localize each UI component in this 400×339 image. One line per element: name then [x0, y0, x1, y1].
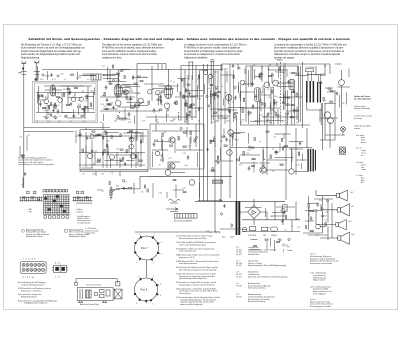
svg-text:4,7k: 4,7k [260, 95, 263, 97]
resistor R36 [296, 93, 297, 96]
svg-text:1,2: 1,2 [64, 79, 66, 81]
resistor R54 [120, 160, 123, 161]
IF transformer can Fi2 [164, 85, 172, 98]
wire: speaker feeds [316, 190, 338, 238]
svg-text:setzen und 2 Umdrehungen legen: setzen und 2 Umdrehungen legen [179, 243, 206, 246]
resistor R12 [108, 104, 111, 105]
preamp interior columns [82, 131, 142, 176]
capacitor C75 [86, 136, 88, 140]
svg-text:← ···· AM: ← ···· AM [24, 208, 32, 211]
variable capacitor C5 tuning [43, 115, 58, 119]
wire: module internals [79, 146, 145, 166]
resistor R42 [252, 159, 255, 160]
svg-text:Ly57: Ly57 [350, 192, 354, 194]
svg-text:0,45: 0,45 [262, 166, 265, 168]
resistor R3 [55, 105, 56, 108]
mains/output transformer Tr1 windings [307, 81, 321, 103]
wire: mid rail [140, 175, 232, 177]
svg-text:560: 560 [173, 119, 176, 121]
svg-text:100m: 100m [268, 122, 273, 124]
tuning indicator lamp La1 [324, 112, 330, 118]
svg-text:St-Dec: St-Dec [277, 59, 283, 62]
svg-text:3: 3 [160, 284, 161, 286]
capacitor C34 [232, 64, 234, 68]
component cluster: lower band left detail [76, 131, 143, 144]
labels below [80, 303, 99, 306]
svg-text:5,6n: 5,6n [101, 191, 104, 193]
svg-text:de procéder au réalignement, c: de procéder au réalignement, consulter l… [184, 53, 241, 56]
svg-text:0,45: 0,45 [47, 121, 50, 123]
svg-text:Le réglage du trimmer et des c: Le réglage du trimmer et des condensateu… [184, 43, 247, 46]
svg-text:Klangschalter eingeschaltet: Klangschalter eingeschaltet [310, 262, 332, 265]
switch wafer labels right [74, 209, 83, 214]
component cluster: extra band E [255, 72, 299, 120]
wire: dial cord line [135, 231, 220, 233]
transistor T29 [156, 91, 160, 95]
transistor T27 [123, 90, 128, 95]
capacitor C3 [69, 90, 72, 95]
svg-text:220: 220 [248, 115, 251, 117]
right top corner links [310, 64, 335, 92]
svg-text:stecker ziehen: stecker ziehen [179, 292, 191, 295]
wire: transformer connections [307, 64, 325, 140]
transistor T7 [138, 98, 143, 103]
capacitor C63 [321, 206, 324, 211]
svg-text:0,25: 0,25 [64, 117, 67, 119]
tone network [303, 196, 332, 240]
svg-text:1,5k: 1,5k [228, 141, 231, 143]
component cluster: extra mid [211, 132, 304, 170]
component cluster: extra band A [38, 88, 95, 119]
svg-text:1,2: 1,2 [267, 89, 269, 91]
svg-text:3,3k: 3,3k [271, 87, 274, 89]
capacitor C53 [121, 187, 126, 190]
resistor R21 [162, 133, 163, 136]
resistor R45 [299, 152, 300, 155]
pointer arrow [198, 199, 222, 202]
svg-text:6,8n: 6,8n [156, 122, 159, 124]
wire: AF module internals [152, 124, 204, 158]
component cluster: mid band detail [206, 129, 302, 173]
wire: decoder dashed boundary [280, 62, 282, 125]
svg-text:5: 5 [153, 303, 154, 305]
transistor T12 [227, 150, 233, 156]
choke Dr3 [316, 224, 321, 229]
transistor T11 [228, 130, 234, 136]
svg-text:2,2k: 2,2k [209, 232, 212, 234]
pilot circle [281, 209, 285, 213]
svg-text:Anschlußleiste AM/FM: Anschlußleiste AM/FM [174, 220, 192, 223]
svg-text:0,45: 0,45 [213, 137, 216, 139]
wire: IF strip verticals [110, 70, 196, 141]
svg-text:tastiera: tastiera [354, 127, 361, 130]
component cluster: top right infill [245, 66, 308, 80]
resistor R23 [162, 158, 163, 161]
svg-text:ance and the calibration would: ance and the calibration would be impair… [102, 50, 157, 53]
fuse Si1 [242, 227, 246, 231]
component cluster: AM tuner detail parts [38, 86, 95, 119]
svg-text:220: 220 [156, 120, 159, 122]
title line [29, 37, 351, 41]
svg-text:0,25: 0,25 [206, 231, 209, 233]
svg-text:LF 108: LF 108 [236, 285, 242, 287]
svg-text:6 7 8 9 10: 6 7 8 9 10 [23, 277, 35, 279]
hatched block [85, 290, 91, 298]
resistor R44 [280, 164, 283, 165]
resistor R13 [126, 96, 127, 99]
svg-text:2: 2 [154, 234, 155, 236]
svg-text:0,25: 0,25 [40, 79, 43, 81]
capacitor C21 [153, 142, 156, 147]
svg-text:0,6: 0,6 [324, 66, 326, 68]
legend entry: circle symbol explanation [22, 228, 50, 238]
svg-text:The alignment of the trimmer c: The alignment of the trimmer capacitors … [102, 43, 162, 46]
svg-text:8,2k: 8,2k [258, 75, 261, 77]
resistor R75 [102, 136, 103, 139]
IF transformer can Fi1 [114, 84, 122, 97]
rectifier module rect [283, 205, 288, 211]
resistor R2 [43, 108, 46, 109]
colour code list [356, 135, 367, 184]
svg-text:6: 6 [136, 303, 137, 305]
resistor R5 [67, 105, 70, 106]
svg-text:Reparaturen zu beachten: Reparaturen zu beachten [21, 289, 41, 292]
svg-text:12k: 12k [232, 102, 235, 104]
svg-text:12k: 12k [102, 75, 105, 77]
svg-text:Endstufe links: Endstufe links [248, 253, 259, 256]
note column small [85, 227, 99, 234]
svg-text:L 71: L 71 [82, 174, 85, 176]
resistor R18 [183, 95, 184, 98]
svg-text:voller Lautstärke gem.: voller Lautstärke gem. [179, 250, 197, 253]
resistor R72 [187, 103, 188, 106]
resistor R64 [314, 210, 317, 211]
svg-text:la reproduction et l'étalonnag: la reproduction et l'étalonnage seraient… [184, 50, 243, 53]
transistor T10 [155, 151, 159, 155]
svg-text:Bereichsumschaltung: Bereichsumschaltung [248, 300, 265, 303]
transistor T3 [71, 97, 75, 101]
transistor T14 [264, 82, 270, 88]
svg-text:Wellenbereich Werte: Wellenbereich Werte [26, 235, 43, 238]
capacitor C11 [105, 85, 108, 90]
svg-text:→ ···· FM: → ···· FM [24, 212, 32, 214]
svg-text:1,5k: 1,5k [270, 216, 273, 218]
terminal left [75, 283, 78, 286]
component cluster: FM detector detail [248, 68, 299, 125]
resistor R77 [102, 152, 103, 155]
wire: driver links [150, 162, 185, 176]
resistor R22 [178, 137, 179, 140]
wire: volume feed [111, 176, 140, 194]
resistor R78 [140, 140, 141, 143]
svg-text:8,2k: 8,2k [116, 186, 119, 188]
svg-text:Abgleichanleitung.: Abgleichanleitung. [21, 57, 40, 60]
stands [79, 301, 107, 303]
ratio detector can Fi4 [289, 79, 295, 89]
svg-text:4,7k: 4,7k [101, 174, 104, 176]
svg-text:6,8n: 6,8n [185, 165, 188, 167]
transistor T23 [137, 60, 299, 120]
svg-text:Tr 8: Tr 8 [110, 172, 113, 174]
svg-text:2,2k: 2,2k [116, 149, 119, 151]
svg-text:Umschaltung von nachstehend an: Umschaltung von nachstehend angegeben. [18, 163, 55, 166]
resistor R53 [104, 150, 105, 153]
AFC transistor T16 [339, 80, 345, 86]
svg-text:LF 103: LF 103 [236, 254, 242, 256]
wire: FM horizontals [240, 92, 310, 125]
transistor T8 [169, 137, 175, 143]
svg-text:2,2k: 2,2k [268, 97, 271, 99]
PCB outline [77, 288, 113, 301]
svg-text:auf Buchsenbelegung achten: auf Buchsenbelegung achten [21, 283, 44, 286]
svg-text:und Abgleichseite vergleichen: und Abgleichseite vergleichen [24, 302, 48, 305]
capacitor C22 [187, 155, 190, 160]
resistor R6 [78, 106, 81, 107]
svg-text:2000µF: 2000µF [271, 235, 277, 237]
component cluster: extra band B [102, 75, 140, 119]
resistor R7 [86, 96, 87, 99]
resistor R33 [264, 103, 265, 106]
resistor R65 [325, 223, 326, 227]
lower-left parts row [79, 131, 107, 139]
svg-text:3,3k: 3,3k [215, 161, 218, 163]
svg-text:10n: 10n [20, 137, 23, 139]
wire: AM box internal bus [36, 86, 95, 113]
svg-text:12k: 12k [90, 76, 93, 78]
wire bundle: center vertical comb [211, 66, 300, 125]
capacitor C41 [248, 166, 251, 171]
right bottom legend block [310, 254, 339, 308]
svg-text:Buchsengruppen schaltbar: Buchsengruppen schaltbar [310, 305, 332, 308]
svg-text:1,5k: 1,5k [225, 69, 228, 71]
svg-text:3,3k: 3,3k [290, 73, 293, 75]
intro paragraph column 1 (German) [21, 43, 85, 59]
dial lamp La3 [341, 127, 346, 136]
resistor R58 [105, 131, 106, 134]
resistor R27 [218, 156, 219, 159]
svg-text:250: 250 [263, 235, 266, 237]
resistor R57 [98, 134, 101, 135]
svg-text:4,7k: 4,7k [141, 192, 144, 194]
svg-text:0,6: 0,6 [260, 92, 262, 94]
svg-text:0,6: 0,6 [285, 230, 287, 232]
svg-text:C 14: C 14 [82, 121, 86, 123]
resistor R29 [211, 170, 214, 171]
wire: pos7 to pos5 link [145, 260, 147, 278]
svg-text:Fi 6 460kHz: Fi 6 460kHz [306, 67, 315, 69]
component cluster: right top detail [319, 66, 350, 123]
wire: AM box verticals [39, 86, 94, 113]
svg-text:100m: 100m [215, 121, 220, 123]
transistor T28 [148, 90, 152, 94]
svg-text:Wege ersetzen: Wege ersetzen [313, 279, 325, 282]
dial cord plan Pos 7 [134, 233, 162, 264]
value label row under tuner boxes [100, 121, 299, 125]
resistor R31 [244, 98, 245, 101]
AF preamp module box [150, 124, 204, 169]
svg-text:du clavier: du clavier [354, 117, 362, 120]
remote socket box [91, 62, 235, 278]
svg-text:6: 6 [137, 262, 138, 264]
svg-text:Regelausgang (mit Takt und NF-: Regelausgang (mit Takt und NF-Regelausga… [248, 264, 286, 267]
main switch bank (dense) [43, 195, 70, 215]
component cluster: dial row detail [101, 179, 200, 198]
note under right comb [77, 215, 91, 225]
svg-text:4: 4 [161, 254, 162, 256]
module box (Vorstufe) [80, 130, 148, 172]
switch comb right [73, 196, 93, 203]
svg-text:1k: 1k [221, 86, 223, 88]
svg-text:FI 460 kHz) ne doit pas être m: FI 460 kHz) ne doit pas être modifié, si… [184, 47, 241, 50]
component cluster: preamp module detail [82, 149, 142, 169]
svg-text:10n: 10n [164, 132, 167, 134]
wire: module vertical feed [86, 123, 120, 176]
svg-text:12k: 12k [100, 122, 103, 124]
resistor R56 [139, 160, 142, 161]
terminal right [116, 282, 120, 286]
capacitor C2 [57, 109, 60, 114]
resistor R14 [131, 107, 134, 108]
svg-text:8,2k: 8,2k [319, 200, 322, 202]
node: rail junction [222, 69, 223, 70]
svg-text:1k: 1k [269, 106, 271, 108]
svg-text:12k: 12k [267, 120, 270, 122]
component cluster: IF strip B detail parts [152, 75, 201, 123]
svg-text:560: 560 [47, 76, 50, 78]
resistor R35 [286, 104, 289, 105]
svg-text:Ly60: Ly60 [351, 234, 355, 236]
resistor R1 [38, 95, 39, 98]
capacitor C31 [252, 104, 255, 109]
transistor T20 [109, 154, 114, 159]
switch comb left [20, 196, 43, 201]
DIN connector Bu1 [20, 259, 46, 280]
svg-text:10 11 12 13 14 15 16: 10 11 12 13 14 15 16 [86, 285, 101, 287]
svg-text:0,25: 0,25 [214, 72, 217, 74]
svg-text:Netz: Netz [222, 236, 226, 239]
oscillator transistor T25 [226, 94, 232, 100]
trimmer row [64, 115, 84, 118]
value labels psu [248, 235, 277, 237]
transistor T9 [169, 163, 175, 169]
svg-text:realignment is tried.: realignment is tried. [102, 57, 122, 60]
svg-text:der Tastenklaviatur: der Tastenklaviatur [354, 97, 371, 100]
svg-text:12k: 12k [220, 141, 223, 143]
transistor T31 [129, 144, 134, 149]
svg-text:Treiber: Treiber [287, 250, 293, 252]
svg-text:riallineamento consultare semp: riallineamento consultare sempre le istr… [274, 53, 341, 56]
transistor T15 [273, 80, 279, 86]
svg-text:bianco: bianco [361, 142, 367, 144]
ferrite antenna coil L1 [50, 85, 56, 96]
resistor R79 [135, 155, 136, 158]
wire: right horizontals [320, 118, 345, 140]
svg-text:47k: 47k [283, 147, 286, 149]
tuning indicator lamp La2 [328, 118, 334, 124]
connector strip hatch [213, 180, 223, 183]
resistor R73 [330, 91, 333, 92]
transistor T19 [87, 153, 92, 158]
svg-text:blu: blu [361, 182, 364, 184]
svg-text:4,7k: 4,7k [135, 140, 138, 142]
side box speaker sym [114, 289, 122, 299]
transistor T21 [130, 153, 135, 158]
svg-text:Pos 7: Pos 7 [141, 246, 148, 250]
svg-text:0,6: 0,6 [324, 101, 326, 103]
resistor R28 [224, 145, 227, 146]
svg-text:4,7k: 4,7k [212, 122, 215, 124]
svg-text:560: 560 [235, 119, 238, 121]
wire: psu verticals [240, 199, 296, 232]
resistor R15 [148, 101, 149, 104]
label row [86, 285, 101, 287]
component cluster: AM box top risers [38, 71, 96, 80]
svg-text:Wellenbereich Werte: Wellenbereich Werte [69, 235, 86, 238]
svg-text:Pos 5: Pos 5 [141, 288, 148, 292]
svg-text:0,45: 0,45 [296, 122, 299, 124]
driver transistor T17 [260, 167, 266, 173]
svg-text:3,1: 3,1 [87, 79, 89, 81]
component cluster: tone network detail [306, 199, 334, 237]
svg-text:220: 220 [220, 116, 223, 118]
resistor R32 [248, 112, 251, 113]
intro paragraph column 4 (Italian) [274, 43, 347, 59]
svg-text:ändert werden die Abgleichanle: ändert werden die Abgleichanleitung beac… [21, 53, 81, 56]
svg-text:2,2k: 2,2k [275, 105, 278, 107]
wire: tone verticals [309, 196, 332, 240]
svg-text:0,45: 0,45 [113, 74, 116, 76]
numbered instruction list [176, 235, 221, 306]
AM tuner assembly box [33, 81, 98, 122]
keyboard switch assembly [20, 190, 100, 235]
capacitor C51 [79, 132, 82, 137]
svg-text:47k: 47k [128, 132, 131, 134]
terminal strip X1 [175, 214, 198, 219]
svg-text:Mischstufe und Oszillator (mit: Mischstufe und Oszillator (mit Vorstufen… [248, 275, 288, 278]
svg-text:Dr 2: Dr 2 [58, 120, 61, 123]
resistor R4 [64, 93, 65, 96]
node dots IF strip [118, 69, 169, 112]
component cluster: center column detail [207, 67, 241, 123]
svg-text:gemessen (± 10 %): gemessen (± 10 %) [179, 257, 195, 259]
capacitor C32 [267, 112, 270, 117]
transistor T13 [189, 180, 195, 186]
svg-text:220V~: 220V~ [230, 237, 235, 239]
component cluster: upper center infill [205, 76, 295, 125]
svg-text:0,45: 0,45 [248, 150, 251, 152]
mixer transistor T26 [240, 80, 245, 85]
svg-text:platten ersichtlich dargestell: platten ersichtlich dargestellt [180, 303, 203, 306]
resistor R8 [91, 103, 92, 106]
svg-text:220: 220 [82, 91, 85, 93]
volume potentiometer P1 [110, 186, 116, 200]
aux connector AB/CD [52, 262, 68, 279]
key buttons row [27, 190, 84, 194]
wire: ladder ticks [230, 63, 277, 70]
speaker LS4 [337, 232, 350, 244]
wire: supply rail top [42, 69, 222, 71]
svg-text:nicht verändert werden, da son: nicht verändert werden, da sonst die Übe… [21, 47, 85, 50]
svg-text:Ohne Volloption: Ohne Volloption [313, 292, 326, 295]
svg-text:0,6: 0,6 [325, 220, 327, 222]
svg-text:0,25: 0,25 [297, 165, 300, 167]
wire: left lower vertical [23, 128, 25, 188]
wire: left feed vertical [23, 78, 25, 128]
wire: mid horizontals [240, 155, 308, 172]
component cluster: top left infill [102, 65, 130, 80]
svg-text:d'alignement détaillées.: d'alignement détaillées. [184, 57, 208, 60]
resistor R26 [210, 140, 211, 143]
